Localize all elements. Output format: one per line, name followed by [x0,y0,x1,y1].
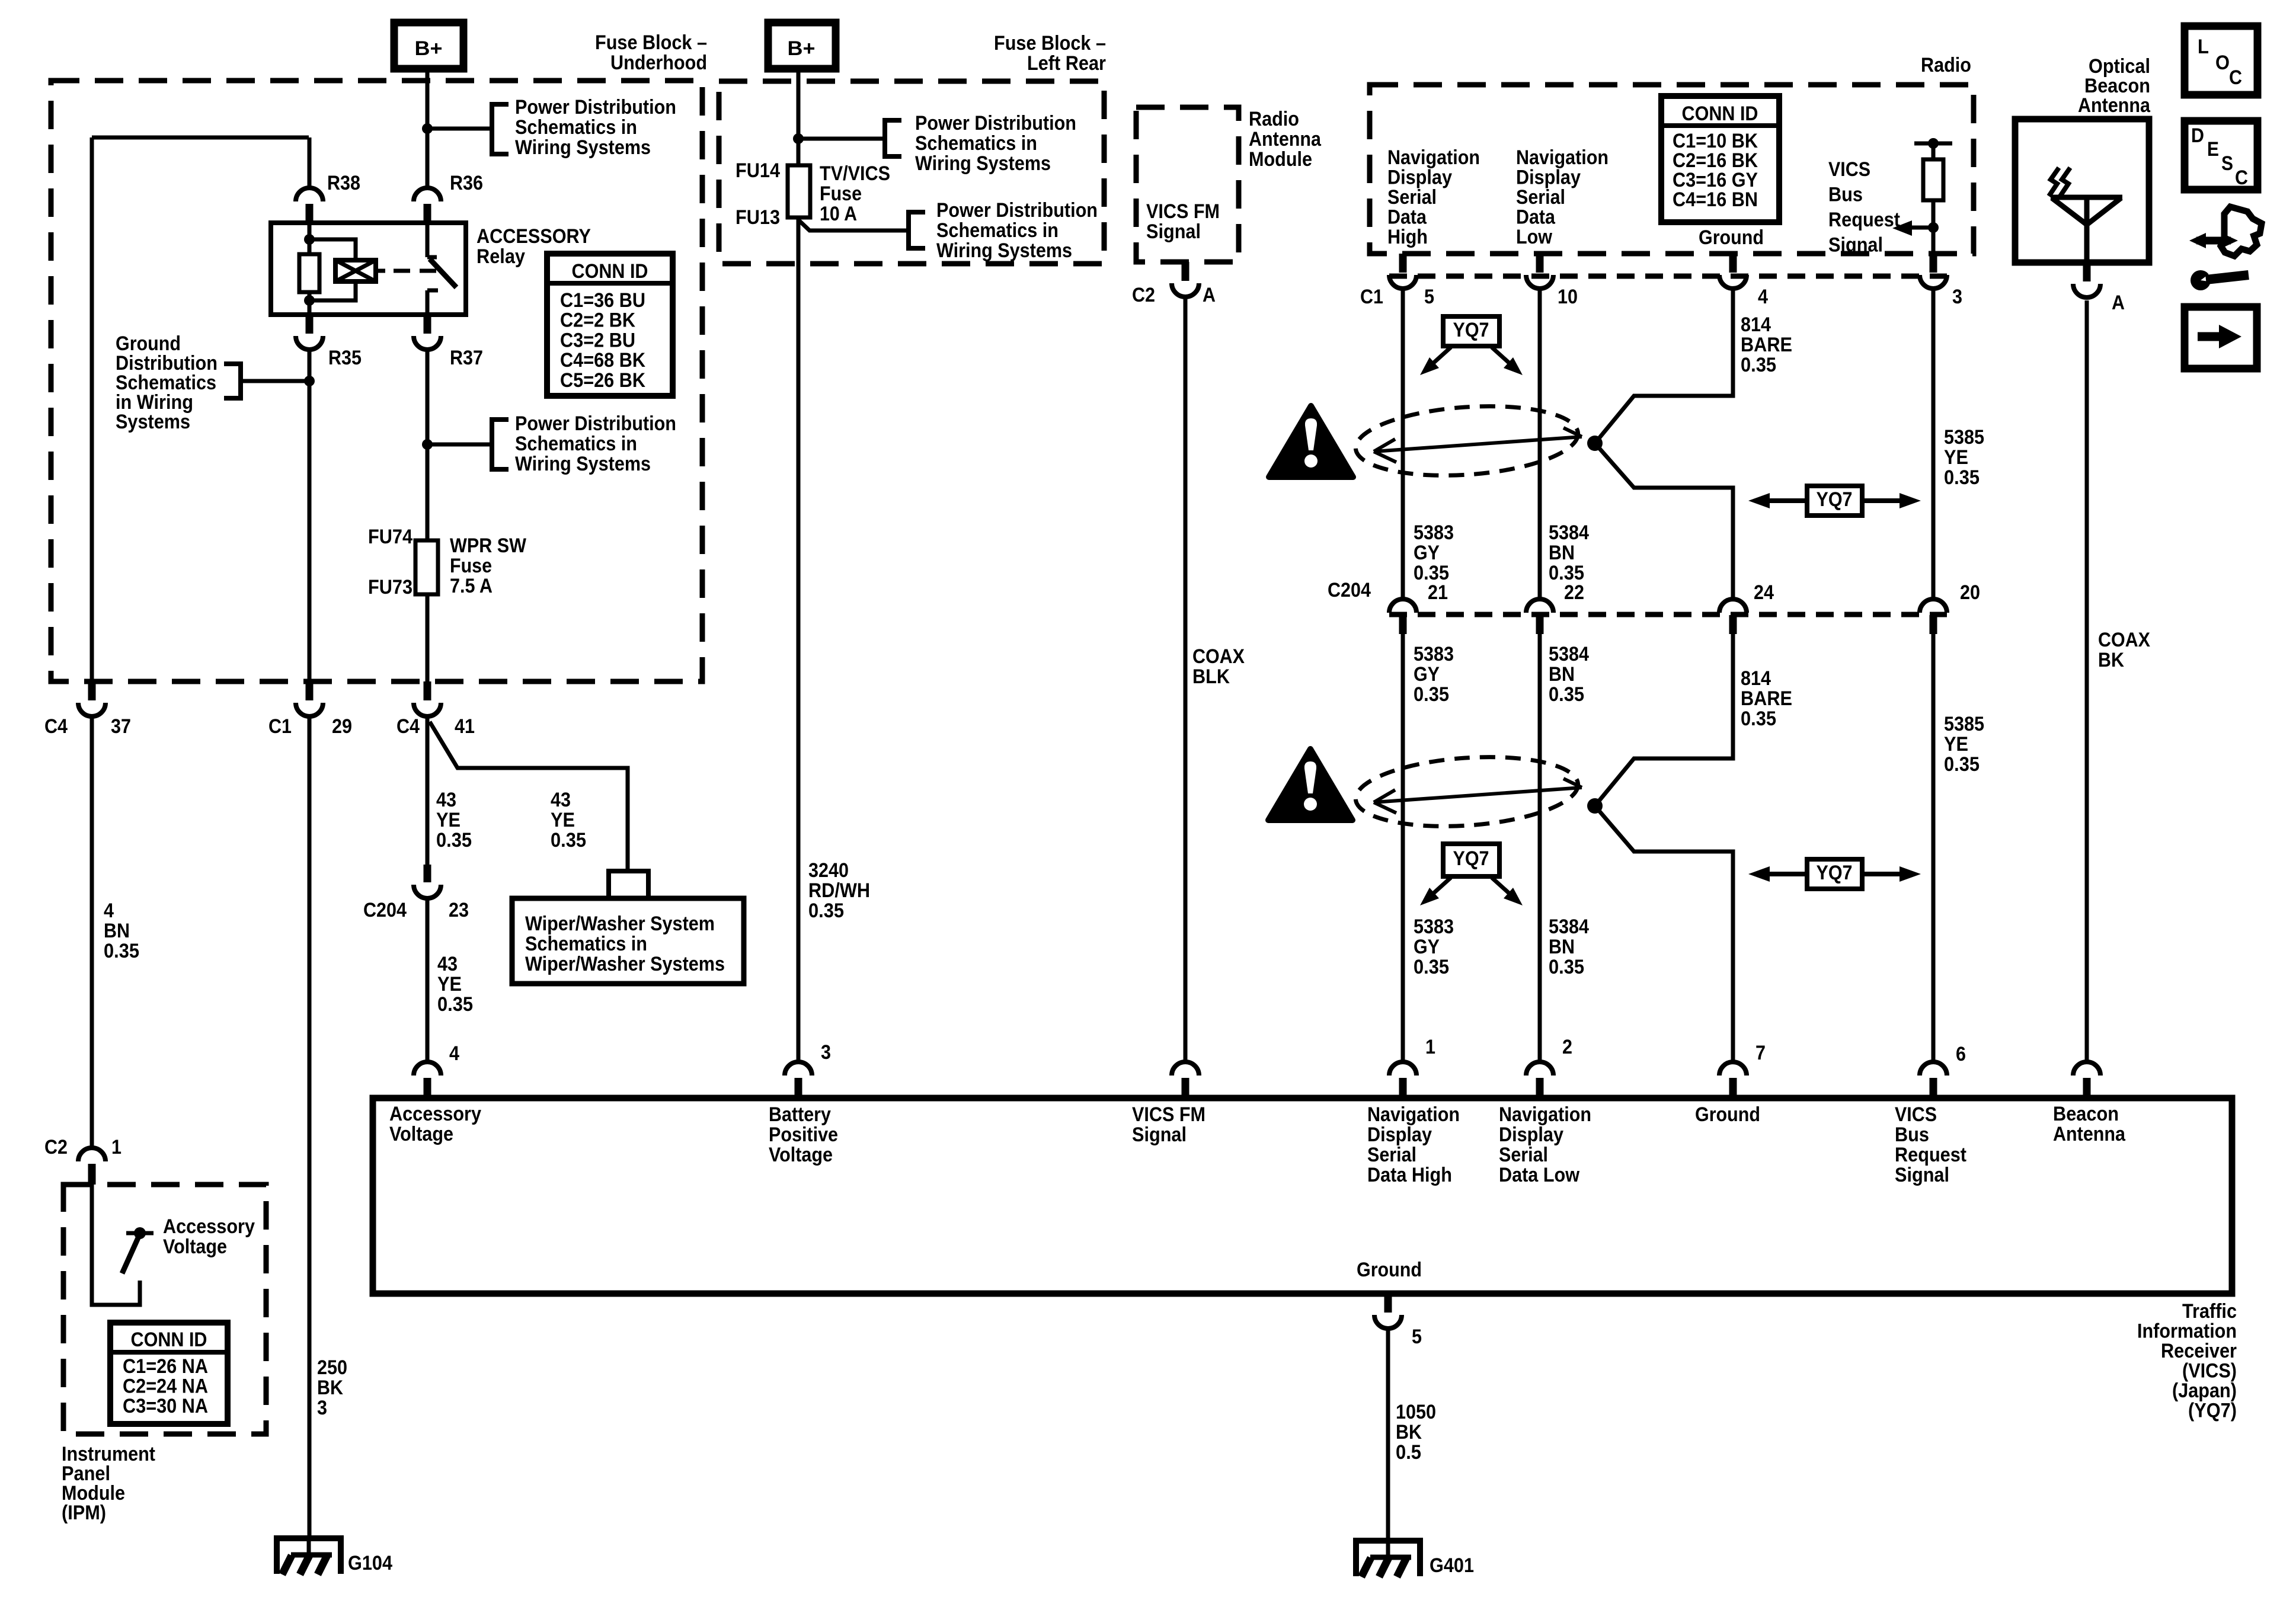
connector C204 pin 24 [1719,599,1747,613]
svg-text:Display: Display [1367,1124,1432,1146]
bracket power distribution 1 [492,104,509,154]
warning triangle upper [1269,406,1353,477]
connector radio C1 pin 4 [1729,254,1737,273]
svg-text:Request: Request [1828,209,1900,231]
svg-text:4: 4 [449,1042,459,1065]
svg-text:0.35: 0.35 [1741,708,1776,730]
svg-text:High: High [1387,226,1428,248]
svg-text:Systems: Systems [116,411,190,433]
relay mechanical link dashed [394,269,439,273]
wire down to relay R38 pin [308,137,312,188]
svg-text:(YQ7): (YQ7) [2188,1400,2237,1422]
svg-text:0.35: 0.35 [436,829,472,852]
tag YQ7 with horizontal double arrow lower [1763,872,1807,876]
connector C204 pin 20 [1920,599,1947,613]
svg-text:Signal: Signal [1132,1124,1187,1146]
svg-text:Left Rear: Left Rear [1027,52,1106,75]
svg-text:C3=2 BU: C3=2 BU [560,329,635,351]
svg-text:A: A [2112,292,2125,314]
connector C204 pin 22 [1526,599,1553,613]
svg-text:YE: YE [1944,446,1968,469]
connector R36 [414,188,441,201]
svg-text:0.35: 0.35 [104,940,139,962]
svg-text:Fuse Block –: Fuse Block – [595,31,707,54]
connector receiver VICS FM [1172,1062,1199,1076]
CONN ID table (radio) [1661,96,1779,222]
bracket power distribution 4 [909,212,925,248]
connector receiver pin 6 [1920,1062,1947,1076]
svg-text:Navigation: Navigation [1387,146,1480,169]
connector receiver pin 4 [414,1062,441,1076]
svg-text:Fuse: Fuse [820,183,862,205]
icon arrow box [2185,307,2257,369]
svg-text:0.35: 0.35 [1549,683,1584,706]
connector receiver pin 1 [1389,1062,1416,1076]
svg-text:Request: Request [1895,1144,1966,1166]
bracket into wiper washer box [609,871,648,898]
svg-text:Radio: Radio [1921,54,1971,76]
splice junction upper [1587,436,1603,451]
svg-text:VICS: VICS [1828,158,1870,181]
svg-text:250: 250 [317,1356,347,1379]
arrow VICS bus request signal [1892,220,1912,236]
svg-text:0.35: 0.35 [1549,956,1584,978]
svg-text:7.5 A: 7.5 A [450,575,493,597]
warning triangle lower [1268,749,1352,820]
svg-text:5383: 5383 [1414,643,1454,665]
connector C2 pin A (radio antenna module) [1182,262,1189,281]
svg-text:3: 3 [1952,286,1962,308]
svg-text:RD/WH: RD/WH [808,879,870,902]
svg-text:Schematics in: Schematics in [915,132,1037,155]
svg-text:Navigation: Navigation [1516,146,1609,169]
svg-text:BK: BK [317,1377,343,1399]
relay switch contact [426,223,430,257]
svg-text:3: 3 [821,1041,831,1064]
svg-text:BN: BN [1549,663,1575,686]
svg-text:YQ7: YQ7 [1817,862,1853,884]
switch accessory voltage (IPM) [134,1227,146,1239]
radio connector row C1 dashed line [1389,274,1947,279]
svg-text:R36: R36 [450,172,483,194]
wire B+ to relay R36 pin [426,69,430,188]
svg-text:B+: B+ [788,37,816,60]
icon vehicle outline with double arrow [2221,207,2262,256]
svg-text:Serial: Serial [1516,186,1565,209]
connector radio C1 pin 5 [1399,254,1407,273]
connector receiver pin 5 (ground) [1384,1294,1392,1313]
connector R38 [296,188,323,201]
traffic information receiver VICS box [373,1098,2232,1294]
wire top horizontal accessory-voltage net [92,136,309,140]
wiper washer reference box [512,898,744,984]
wire to request arrow [1911,226,1933,230]
svg-text:D: D [2191,124,2204,147]
svg-text:C4: C4 [44,715,68,738]
wire VICS bus request 5385 lower [1932,634,1936,1062]
svg-text:5: 5 [1412,1326,1422,1348]
svg-text:37: 37 [111,715,131,738]
svg-text:29: 29 [332,715,352,738]
svg-text:Schematics in: Schematics in [515,433,637,455]
svg-text:BN: BN [1549,542,1575,564]
svg-text:O: O [2215,52,2230,74]
svg-text:Power Distribution: Power Distribution [936,199,1098,222]
svg-text:6: 6 [1956,1043,1966,1065]
svg-text:Signal: Signal [1895,1164,1949,1186]
svg-text:C2: C2 [1132,284,1155,306]
relay internal: coil branch wires [308,223,312,254]
wire fuse to connector C4 pin 41 [426,594,430,681]
wire left vertical to connector C4 pin 37 [90,137,94,681]
svg-text:G104: G104 [348,1552,392,1574]
svg-text:L: L [2198,36,2209,58]
connector A (optical beacon antenna) [2083,263,2091,281]
connector C2 pin 1 [78,1148,105,1161]
svg-text:COAX: COAX [2098,629,2150,651]
svg-text:5383: 5383 [1414,521,1454,544]
accessory relay box [271,223,466,315]
svg-text:5: 5 [1424,286,1434,308]
svg-text:R35: R35 [328,347,362,369]
wire 5384 lower (C204 22 to receiver 2) [1538,634,1542,1062]
svg-text:0.35: 0.35 [1944,753,1980,776]
CONN ID table (underhood connectors) [547,254,673,396]
svg-text:24: 24 [1754,581,1774,604]
wire 250 BK to G104 [308,716,312,1539]
wire fuse to power distribution bracket 4 [798,220,909,231]
svg-text:R37: R37 [450,347,483,369]
svg-text:Navigation: Navigation [1499,1103,1591,1126]
svg-text:C2=2 BK: C2=2 BK [560,309,635,332]
tag YQ7 with horizontal double arrow upper [1763,498,1807,503]
svg-text:(IPM): (IPM) [62,1502,106,1524]
twist arrow upper [1374,428,1582,462]
svg-text:3: 3 [317,1397,327,1419]
svg-text:0.5: 0.5 [1396,1441,1421,1464]
radio dashed box [1370,85,1974,254]
wire VICS FM signal coax to receiver [1184,297,1188,1062]
wire battery positive voltage to receiver pin 3 [797,217,801,1062]
connector C204 pin 21 [1389,599,1416,613]
svg-text:FU14: FU14 [736,159,780,182]
ground G401 [1353,1539,1423,1577]
connector radio C1 pin 3 [1930,254,1937,273]
junction VICS bus request [1928,222,1939,233]
svg-text:C3=30 NA: C3=30 NA [123,1395,208,1417]
icon wrench [2191,270,2211,290]
wire 43 YE from C4 41 to C204 23 [426,716,430,865]
wire 43 YE branch to wiper washer [430,722,628,870]
wire drain 814 BARE lower [1595,634,1733,1062]
svg-text:Relay: Relay [477,245,525,268]
svg-text:Wiring Systems: Wiring Systems [515,453,651,475]
fuse block left rear dashed box [719,81,1104,264]
svg-text:Signal: Signal [1828,234,1883,257]
svg-text:A: A [1203,284,1216,306]
wire drain 814 BARE upper [1595,289,1733,599]
svg-text:Voltage: Voltage [163,1235,227,1258]
svg-text:CONN ID: CONN ID [1682,103,1758,125]
svg-text:B+: B+ [415,37,443,60]
svg-text:43: 43 [551,789,571,811]
svg-text:WPR SW: WPR SW [450,534,527,557]
svg-text:Radio: Radio [1249,108,1299,130]
svg-text:GY: GY [1414,936,1440,958]
svg-text:4: 4 [104,900,114,922]
svg-text:Underhood: Underhood [610,52,707,74]
svg-text:Traffic: Traffic [2182,1300,2237,1323]
svg-text:C1: C1 [1360,286,1383,308]
svg-text:(VICS): (VICS) [2182,1360,2237,1382]
svg-text:E: E [2207,138,2219,161]
svg-text:Positive: Positive [769,1124,838,1146]
svg-text:0.35: 0.35 [808,900,844,922]
svg-text:G401: G401 [1430,1554,1474,1577]
svg-text:BLK: BLK [1192,665,1230,688]
junction on R37 wire [422,439,433,450]
svg-text:C204: C204 [1328,579,1371,601]
svg-text:C204: C204 [363,899,407,921]
ground G104 [274,1537,344,1574]
instrument panel module dashed box [63,1185,266,1434]
tag YQ7 upper [1443,316,1499,346]
svg-text:1: 1 [111,1136,121,1158]
svg-text:YQ7: YQ7 [1817,488,1853,511]
svg-text:C: C [2229,66,2242,89]
svg-text:BK: BK [2098,649,2124,671]
svg-text:Wiring Systems: Wiring Systems [915,152,1051,175]
svg-text:3240: 3240 [808,859,849,882]
svg-text:Beacon: Beacon [2053,1103,2119,1125]
svg-text:1: 1 [1425,1036,1435,1058]
svg-text:Battery: Battery [769,1103,831,1126]
svg-text:23: 23 [449,899,469,921]
tag YQ7 lower [1443,844,1499,876]
connector row C204 dashed line [1389,612,1947,617]
svg-text:Data High: Data High [1367,1164,1452,1186]
wire to power distribution bracket 1 [427,127,492,131]
svg-text:Ground: Ground [1357,1259,1422,1281]
connector R35 [306,315,314,334]
svg-text:Bus: Bus [1828,184,1863,206]
svg-text:2: 2 [1562,1036,1572,1058]
svg-text:5384: 5384 [1549,643,1589,665]
svg-text:0.35: 0.35 [437,993,473,1016]
svg-text:VICS FM: VICS FM [1146,200,1220,223]
svg-text:Accessory: Accessory [389,1103,481,1125]
svg-text:Fuse Block –: Fuse Block – [994,32,1106,55]
wire navigation display serial data low (radio pin 10 to C204 pin 22) [1538,289,1542,599]
svg-text:S: S [2221,152,2233,175]
svg-text:Wiring Systems: Wiring Systems [515,136,651,159]
svg-text:CONN ID: CONN ID [572,260,648,283]
svg-text:C1: C1 [268,715,292,738]
svg-text:BN: BN [104,920,130,942]
connector C204 pin 23 [424,865,431,882]
svg-text:Accessory: Accessory [163,1215,255,1238]
svg-text:R38: R38 [327,172,360,194]
svg-text:YE: YE [1944,733,1968,756]
connector C4 pin 37 [88,681,96,700]
svg-text:Wiper/Washer System: Wiper/Washer System [525,913,715,935]
svg-text:BARE: BARE [1741,687,1792,710]
svg-text:GY: GY [1414,542,1440,564]
svg-text:0.35: 0.35 [1414,683,1449,706]
wire R37 down to fuse FU74 [426,350,430,540]
svg-text:814: 814 [1741,667,1771,690]
wire navigation display serial data high (radio pin 5 to C204 pin 21) [1401,289,1405,599]
svg-text:Voltage: Voltage [769,1144,833,1166]
wire IPM internal to switch contact [92,1185,140,1305]
svg-text:Fuse: Fuse [450,555,492,577]
svg-text:C4=68 BK: C4=68 BK [560,349,645,372]
connector C4 pin 41 [424,681,431,700]
svg-text:10: 10 [1558,286,1578,308]
splice junction lower [1587,798,1603,814]
svg-text:YQ7: YQ7 [1453,847,1489,870]
svg-text:BN: BN [1549,936,1575,958]
svg-text:Data: Data [1387,206,1427,229]
wire to power distribution bracket 3 [798,137,885,141]
svg-text:C5=26 BK: C5=26 BK [560,369,645,392]
svg-text:(Japan): (Japan) [2172,1379,2237,1402]
svg-text:43: 43 [436,789,456,811]
svg-text:FU13: FU13 [736,206,780,229]
svg-text:Power Distribution: Power Distribution [515,96,676,119]
svg-text:Data: Data [1516,206,1556,229]
fuse block underhood dashed box [51,81,702,681]
svg-text:Antenna: Antenna [2053,1123,2126,1145]
wire R35 down to connector C1 pin 29 [308,350,312,681]
connector receiver pin 7 [1719,1062,1747,1076]
wire VICS bus request 5385 upper [1932,289,1936,599]
svg-text:22: 22 [1564,581,1584,604]
svg-text:Schematics in: Schematics in [936,219,1059,242]
connector receiver pin 3 [785,1062,812,1076]
svg-text:Information: Information [2137,1320,2237,1343]
svg-text:YQ7: YQ7 [1453,319,1489,341]
twist arrow lower [1374,779,1582,813]
wire 5383 lower (C204 21 to receiver 1) [1401,634,1405,1062]
svg-text:Power Distribution: Power Distribution [915,112,1076,135]
junction on B+ wire [422,123,433,134]
svg-text:FU73: FU73 [368,576,412,598]
relay coil symbol [335,260,376,281]
svg-text:0.35: 0.35 [1741,354,1776,376]
svg-text:0.35: 0.35 [1944,466,1980,489]
svg-text:Bus: Bus [1895,1124,1929,1146]
svg-text:Receiver: Receiver [2161,1340,2237,1362]
svg-text:ACCESSORY: ACCESSORY [477,225,591,248]
svg-text:Display: Display [1499,1124,1563,1146]
svg-text:5384: 5384 [1549,916,1589,938]
svg-text:Schematics in: Schematics in [525,933,647,955]
svg-text:VICS FM: VICS FM [1132,1103,1205,1126]
svg-text:Voltage: Voltage [389,1123,453,1145]
svg-text:C: C [2235,167,2248,189]
icon LOC [2185,26,2257,95]
radio pull-up resistor on VICS bus request [1914,142,1952,146]
svg-text:C1=26 NA: C1=26 NA [123,1355,208,1378]
svg-text:GY: GY [1414,663,1440,686]
svg-text:Display: Display [1516,167,1581,189]
CONN ID table (IPM) [110,1323,228,1424]
svg-text:Wiring Systems: Wiring Systems [936,239,1072,262]
wire B+ to fuse TV/VICS [797,69,801,165]
svg-text:YE: YE [551,809,575,831]
svg-text:5385: 5385 [1944,426,1984,449]
wire beacon antenna coax to receiver [2085,300,2089,1062]
svg-text:Low: Low [1516,226,1552,248]
svg-text:Signal: Signal [1146,220,1201,243]
svg-text:5385: 5385 [1944,713,1984,735]
fuse WPR SW 7.5A (FU74/FU73) [426,540,430,594]
icon DESC [2185,121,2257,190]
connector receiver pin 2 [1526,1062,1553,1076]
svg-text:Module: Module [1249,148,1312,171]
svg-text:C2: C2 [44,1136,68,1158]
svg-text:43: 43 [437,953,458,975]
svg-text:41: 41 [455,715,475,738]
svg-text:VICS: VICS [1895,1103,1937,1126]
wire 1050 BK to G401 [1386,1329,1390,1542]
bracket power distribution 2 [492,420,509,469]
photo antenna symbol [2049,168,2122,263]
svg-text:Serial: Serial [1387,186,1437,209]
wire 4 BN 0.35 to IPM [90,716,94,1148]
svg-text:5384: 5384 [1549,521,1589,544]
fuse TV/VICS 10A (FU14/FU13) [797,165,801,217]
svg-text:Wiper/Washer Systems: Wiper/Washer Systems [525,953,725,975]
svg-text:TV/VICS: TV/VICS [820,162,890,185]
svg-text:Power Distribution: Power Distribution [515,412,676,435]
bracket ground distribution [224,364,241,398]
svg-text:21: 21 [1428,581,1448,604]
svg-text:Ground: Ground [1699,226,1764,249]
svg-text:C4=16 BN: C4=16 BN [1673,188,1758,211]
svg-text:10 A: 10 A [820,203,857,225]
junction on R35 wire [304,376,315,386]
connector receiver pin A (beacon) [2073,1062,2100,1076]
svg-text:YE: YE [436,809,461,831]
connector C1 pin 29 [306,681,314,700]
svg-text:814: 814 [1741,313,1771,336]
svg-text:COAX: COAX [1192,645,1245,668]
svg-text:BARE: BARE [1741,334,1792,356]
svg-text:0.35: 0.35 [551,829,586,852]
svg-text:Schematics in: Schematics in [515,116,637,139]
power symbol B+ (fuse block left rear feed) [768,23,836,69]
twisted pair ellipse lower [1353,750,1580,833]
wire bracket to R35 net [241,379,309,383]
svg-text:20: 20 [1960,581,1980,604]
connector R37 [424,315,431,334]
optical beacon antenna box [2015,119,2149,263]
svg-text:Serial: Serial [1499,1144,1548,1166]
svg-text:C1=36 BU: C1=36 BU [560,289,645,312]
bracket power distribution 3 [885,120,901,156]
relay link stub [376,269,385,273]
svg-text:FU74: FU74 [368,526,412,548]
svg-text:7: 7 [1755,1042,1766,1064]
svg-text:Navigation: Navigation [1367,1103,1460,1126]
svg-text:BK: BK [1396,1421,1422,1443]
svg-text:YE: YE [437,973,462,996]
svg-text:Data Low: Data Low [1499,1164,1579,1186]
wire to power distribution bracket 2 [427,443,492,447]
twisted pair ellipse upper [1353,399,1580,482]
